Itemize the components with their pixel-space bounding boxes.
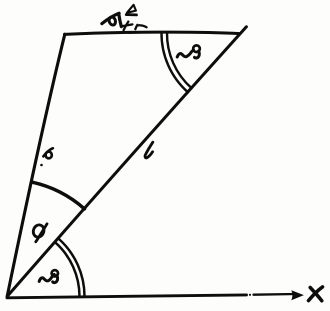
left side line [7,34,65,296]
wire: x-axis [7,294,296,298]
double arc theta (top right vertex) [161,32,191,92]
double arc theta (bottom, at origin) [55,239,85,297]
label l [145,142,153,158]
diagonal line l [7,27,246,297]
label delta [43,148,53,159]
label subscript t (of q^delta_tr) [122,22,132,31]
label phi [32,223,47,241]
label q (of q^delta_tr) [102,13,121,26]
label theta (top) [177,45,200,58]
label superscript delta (of q^delta_tr) [126,5,136,15]
label theta (bottom) [39,270,58,283]
stray dot under delta [40,164,43,167]
label subscript r (of q^delta_tr) [135,25,146,29]
x-axis arrowhead [291,290,304,300]
angle arc phi (single) [32,182,84,209]
top line [65,32,240,34]
label x [309,287,323,301]
